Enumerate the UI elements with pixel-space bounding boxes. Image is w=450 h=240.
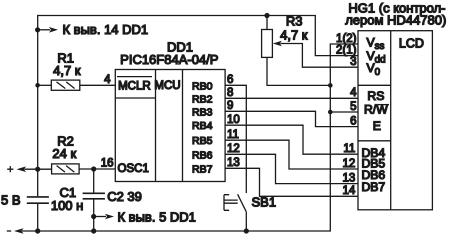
svg-text:К выв. 5 DD1: К выв. 5 DD1 <box>118 210 196 225</box>
resistor R1 4,7 к <box>38 84 52 86</box>
svg-text:14: 14 <box>343 185 356 197</box>
wire +5V input rail with arrow <box>17 166 27 172</box>
capacitor C1 100 н <box>27 196 49 198</box>
node SB1 ground <box>244 228 249 233</box>
svg-text:16: 16 <box>101 157 114 169</box>
svg-text:R3: R3 <box>286 13 303 28</box>
resistor R3 4,7 к potentiometer <box>264 13 269 18</box>
svg-text:лером HD44780): лером HD44780) <box>345 13 446 28</box>
wire RB3 to E <box>225 111 358 126</box>
svg-text:К выв. 14 DD1: К выв. 14 DD1 <box>63 22 149 37</box>
pushbutton SB1 <box>238 194 247 212</box>
wire ground rail with arrow and right ground bus <box>14 228 24 234</box>
svg-text:E: E <box>373 119 381 133</box>
node C2 ground <box>91 228 96 233</box>
resistor R2 24 к <box>52 164 80 174</box>
wire +5V top rail to HG1 Vdd pin 2(1) <box>37 16 358 56</box>
svg-text:13: 13 <box>227 157 240 169</box>
svg-text:9: 9 <box>227 100 233 112</box>
wire RB2 to RS <box>225 97 358 99</box>
svg-text:4,7 к: 4,7 к <box>53 63 81 78</box>
svg-text:8: 8 <box>227 87 233 99</box>
svg-text:13: 13 <box>343 173 356 185</box>
wire +5V left vertical bus <box>37 16 39 197</box>
svg-text:11: 11 <box>343 143 355 155</box>
wire RB4 to DB4 <box>225 125 358 154</box>
svg-text:C2 39: C2 39 <box>107 189 142 204</box>
capacitor C2 39 <box>93 169 95 193</box>
svg-text:RS: RS <box>367 89 384 103</box>
wire RB5 to DB5 <box>225 140 358 169</box>
wire RB0 to SB1 <box>225 85 246 193</box>
microcontroller DD1 PIC16F84A-04/P <box>115 70 225 182</box>
node C2 bottom to DD1 pin 5 <box>91 214 96 219</box>
node R1 to +5V <box>35 83 40 88</box>
svg-text:5 В: 5 В <box>1 193 21 208</box>
svg-text:100 н: 100 н <box>51 198 83 213</box>
wire RB6 to DB6 <box>225 154 358 183</box>
svg-text:LCD: LCD <box>399 36 424 50</box>
wire RB7 to DB7 <box>225 168 358 196</box>
svg-text:4: 4 <box>350 87 357 99</box>
minus sign <box>7 230 11 232</box>
svg-text:RB4: RB4 <box>192 120 213 132</box>
node R/W to ground bus <box>328 110 333 115</box>
svg-text:RB3: RB3 <box>192 106 213 118</box>
wire R/W ground stub <box>330 111 358 113</box>
svg-text:12: 12 <box>343 158 356 170</box>
svg-text:4,7 к: 4,7 к <box>280 28 308 43</box>
svg-text:PIC16F84A-04/P: PIC16F84A-04/P <box>120 52 218 67</box>
svg-text:MCLR: MCLR <box>118 81 151 93</box>
plus sign <box>7 166 13 172</box>
svg-text:RB2: RB2 <box>192 93 213 105</box>
node R3 bottom to ground bus <box>328 83 333 88</box>
wire arrow К выв. 14 DD1 <box>38 29 50 31</box>
node C2 top <box>91 166 96 171</box>
svg-text:RB6: RB6 <box>192 149 213 161</box>
svg-text:4: 4 <box>104 74 111 86</box>
svg-text:OSC1: OSC1 <box>118 163 149 175</box>
svg-text:5: 5 <box>350 101 356 113</box>
svg-text:RB0: RB0 <box>192 80 213 92</box>
svg-text:2(1): 2(1) <box>336 44 357 56</box>
svg-text:24 к: 24 к <box>52 146 76 161</box>
wire arrow К выв. 5 DD1 <box>94 216 106 218</box>
svg-text:RB7: RB7 <box>192 163 213 175</box>
node C1 ground <box>35 228 40 233</box>
svg-text:6: 6 <box>350 116 356 128</box>
svg-text:11: 11 <box>227 129 239 141</box>
svg-text:1(2): 1(2) <box>336 33 357 45</box>
svg-text:DB7: DB7 <box>362 180 386 194</box>
svg-text:RB5: RB5 <box>192 135 213 147</box>
svg-text:MCU: MCU <box>154 80 180 92</box>
svg-text:10: 10 <box>227 114 240 126</box>
svg-text:12: 12 <box>227 143 240 155</box>
svg-text:6: 6 <box>227 74 233 86</box>
node +rail / vertical bus <box>35 167 40 172</box>
node Vdd branch to DD1 pin 14 <box>35 27 40 32</box>
svg-text:3: 3 <box>350 56 356 68</box>
